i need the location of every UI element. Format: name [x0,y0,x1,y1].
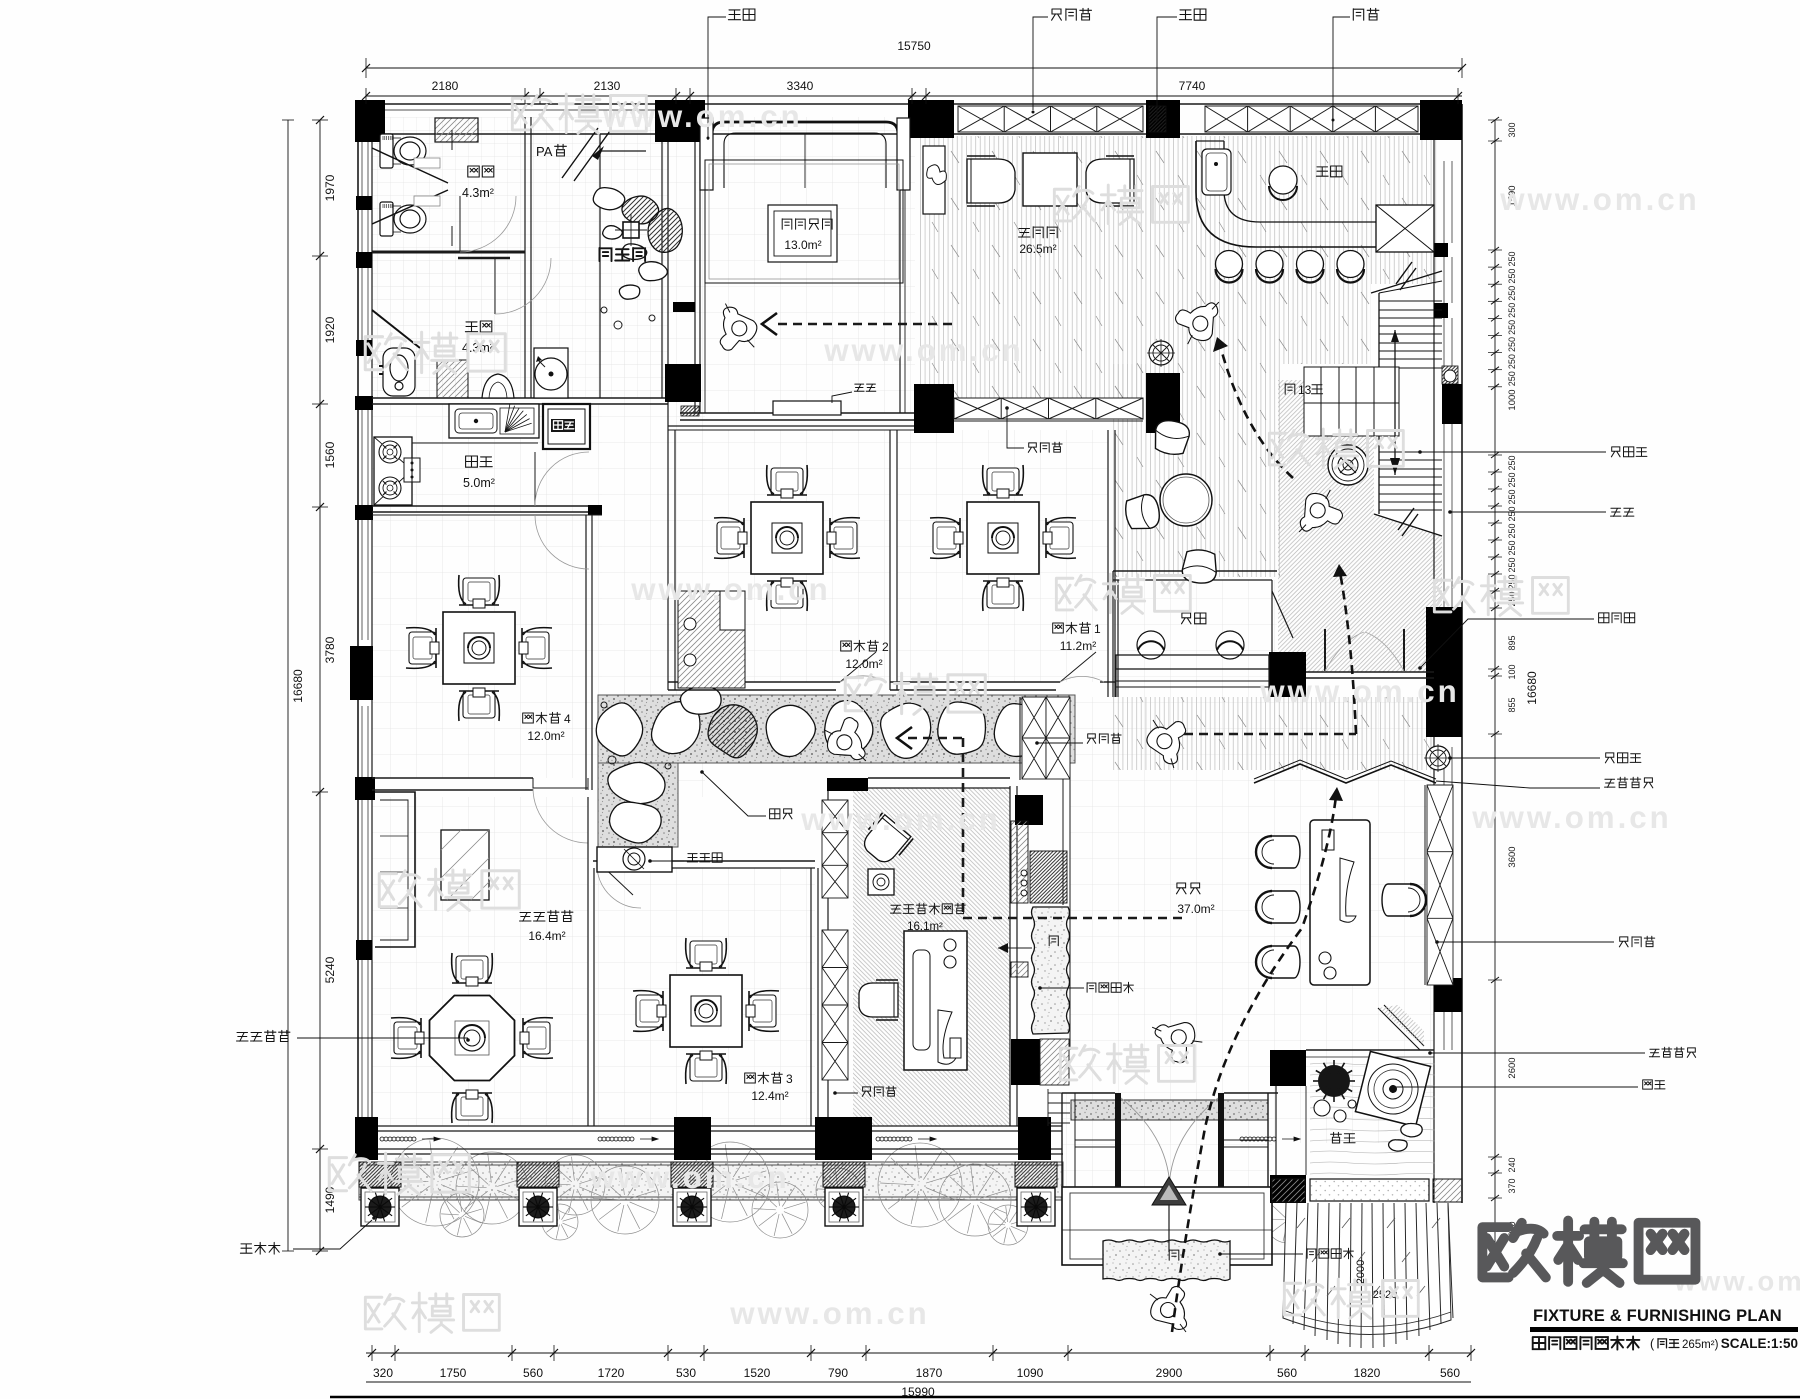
floor lamp at stair bottom [1328,445,1368,485]
leader bluestone steps 2 [1220,1253,1303,1255]
wine room rug [705,160,903,283]
lounge wood stripe floor [1113,364,1280,577]
svg-text:790: 790 [828,1366,848,1380]
water ripples [1310,1063,1435,1175]
wine room left wall black bits [673,302,695,312]
stair break marks [1396,262,1416,290]
wine room sofa [712,122,898,188]
leader lattice screen 1 [1436,781,1600,788]
porch frame [1062,1187,1272,1265]
svg-text:100: 100 [1507,664,1517,679]
lounge chairs + round table [1152,418,1191,456]
dry landscape boundary x705 [699,142,701,413]
black pier top x655 [655,100,705,142]
svg-text:250: 250 [1507,472,1517,487]
barstool behind counter [1269,166,1297,194]
person near reception [1140,713,1190,768]
ladies WC toilets [380,134,426,168]
black pier top-right corner [1420,100,1462,140]
hidden door wall y672-678 [1306,671,1434,673]
green belt band [359,1162,1063,1200]
kitchen stove [374,437,412,505]
entry terrazzo threshold [1071,1100,1268,1120]
gents round wash basin [534,348,568,398]
buddha basin rotated square [1355,1051,1430,1126]
mahjong3 door [597,861,633,895]
left wall window lines [361,142,363,196]
leader display cabinet tasting [1007,408,1024,448]
entry hall side frames [1075,1139,1117,1141]
top leader labels [708,17,726,140]
svg-text:www.om.cn: www.om.cn [630,572,831,607]
corridor wall x662-668 [661,142,663,398]
mahjong4 right wall x586-592 [585,515,587,790]
left overall 16680 [287,120,289,1251]
water court sill band [1310,1179,1429,1201]
front hall right display strip [1424,785,1426,985]
svg-text:2: 2 [882,640,889,654]
label display top [1028,442,1062,452]
label tea calligraphy room [891,903,966,914]
leader floor lamp upper [1420,451,1606,453]
mahjong table set room3 [670,975,742,1047]
mahjong table set room4 [443,612,515,684]
svg-text:12.0m²: 12.0m² [527,729,564,743]
tea room diagonal hatch floor [853,788,1010,1126]
svg-text:PA: PA [536,144,553,159]
person near bar [1174,302,1225,346]
svg-text:250: 250 [1507,523,1517,538]
tea room top wall [827,778,868,791]
label thirteen waters [520,910,573,921]
dashed route entry [1172,796,1336,1332]
mahjong3 right wall x811-818 [810,868,812,1126]
gents small sink [482,374,514,398]
svg-text:16.4m²: 16.4m² [528,929,565,943]
corridor wall x600 [599,134,601,398]
svg-text:www.om.cn: www.om.cn [1259,674,1460,709]
wine tasting area wood stripe floor [919,136,1146,399]
dashed route front hall horizontal [1184,733,1356,736]
toilet vertical wall x525 [524,117,526,398]
leader stepping stones [702,772,766,816]
label ladies WC [468,166,494,177]
svg-text:250: 250 [1507,557,1517,572]
outer wall right [1433,134,1435,1203]
mahjong room door leaves [840,652,876,682]
right wall window lines [1443,161,1445,243]
tea room long table [904,931,967,1070]
leader hidden door [1420,619,1594,668]
leader buddha [1393,1086,1638,1088]
planter boxes [359,1162,401,1187]
leader fireplace wineroom [832,392,852,403]
watermarks [512,94,646,133]
bluestone step slab [1103,1240,1230,1281]
front hall long table [1310,820,1370,985]
toilets bottom wall y398-404 [372,397,668,399]
svg-text:250: 250 [1507,540,1517,555]
svg-text:250: 250 [1507,337,1517,352]
wine room label box [768,205,837,262]
svg-text:26.5m²: 26.5m² [1019,242,1056,256]
svg-text:4: 4 [564,712,571,726]
plant box on wall [923,146,945,214]
corridor stripe floor above screen [1113,697,1434,770]
svg-text:1870: 1870 [916,1366,943,1380]
svg-text:560: 560 [1440,1366,1460,1380]
leader fireplace right [1450,511,1606,513]
label mahjong3 [745,1072,783,1083]
hidden door posts and arcs [1324,629,1326,671]
outer wall left [357,104,359,1158]
gents door arc [494,258,496,314]
person in entry hall [1152,1009,1206,1067]
svg-text:265m²): 265m²) [1682,1339,1719,1351]
black pier top-left corner [355,100,385,142]
display cabinet band top (X pattern) x958-1143 [958,106,1143,132]
label front hall [1177,883,1201,894]
svg-text:15750: 15750 [897,39,931,53]
svg-text:560: 560 [523,1366,543,1380]
label up porch [1169,1250,1179,1261]
floor lamp top right of front hall [1426,746,1450,770]
label dry landscape (bold) [600,248,646,261]
big gray logo bottom right [1482,1221,1695,1283]
ladies/gents divider wall y252-258 [372,251,525,254]
label water feature [1331,1132,1356,1143]
PA room slanted break symbol [562,128,610,181]
svg-text:2600: 2600 [1507,1057,1518,1078]
bottom dimension line [366,1352,1471,1354]
label up tea strip [1049,936,1058,946]
person center corridor [823,716,867,767]
stepping stones [596,703,642,756]
leader floor lamp 2 [1450,757,1600,759]
window spring symbols [380,1137,440,1141]
svg-text:1560: 1560 [323,441,337,468]
sloped glass door to water court [1378,1005,1424,1050]
svg-text:895: 895 [1507,635,1517,650]
svg-text:250: 250 [1507,303,1517,318]
svg-text:2900: 2900 [1156,1366,1183,1380]
svg-text:16.1m²: 16.1m² [907,921,943,933]
washstand hatched cabinet (ladies WC) [435,118,478,142]
gents hatched cabinet [437,360,468,398]
kitchen counter edge [412,442,538,444]
label display hall-left [1087,733,1121,743]
svg-text:www.om.cn: www.om.cn [729,1296,930,1331]
wine room hearth [773,401,841,415]
reception door leaf [1272,591,1293,638]
svg-text:3340: 3340 [787,79,814,93]
svg-text:16680: 16680 [291,669,305,703]
octagon table 13-waters [430,996,515,1081]
label wine room [782,219,832,230]
leader thirteen water table [297,1037,468,1039]
mahjong rooms left wall x668-675 [667,404,669,690]
porch step triangle marker [1152,1177,1186,1205]
entry left wall [1061,1093,1063,1187]
floor lamp near bar [1149,341,1173,365]
water court walls [1270,1050,1306,1086]
thirteen waters sofa [375,792,415,947]
leader display right [1437,941,1614,943]
mahjong rooms bottom wall y682-690 [668,681,840,683]
black pier top x1146 [1146,100,1180,138]
end-view stand alcove [597,847,672,872]
mahjong table set room2 [751,502,823,574]
tea room left display strip [827,786,829,1126]
label mahjong2 [841,640,879,651]
reception desk and chairs [1137,631,1165,659]
svg-text:1720: 1720 [598,1366,625,1380]
bluestone slab vertical [1032,907,1070,1034]
svg-text:530: 530 [676,1366,696,1380]
svg-text:SCALE:1:50: SCALE:1:50 [1721,1336,1798,1351]
hatch floor below lower stair [1374,514,1442,672]
hatch floor near hidden door [1278,380,1374,672]
svg-text:560: 560 [1277,1366,1297,1380]
left margin labels [237,1030,290,1041]
dashed route wine room [778,323,956,326]
right dimension column [1494,120,1496,1260]
svg-text:1000: 1000 [1507,389,1518,410]
left wall piers [356,196,372,210]
svg-text:12.0m²: 12.0m² [845,657,882,671]
right wall piers [1434,243,1448,257]
svg-text:1520: 1520 [744,1366,771,1380]
kitchen/mahjong4 door arc 2 [535,514,589,516]
label display tearoom [862,1086,896,1096]
strip contents: black blocks, hatch, bluestone slab [1015,795,1043,825]
label end stand [687,853,722,862]
svg-text:5.0m²: 5.0m² [463,476,495,490]
label tasting area [1019,227,1058,238]
stripe floor diagonal ticks overlay [919,136,1146,399]
svg-text:3: 3 [786,1072,793,1086]
label mahjong4 [523,712,561,723]
svg-text:16680: 16680 [1525,671,1539,705]
tea room stove [868,869,894,895]
tea room rotated armchair [857,813,913,869]
dashed route center corridor [908,737,963,740]
room floor grids [372,117,525,398]
stairs upper right [1304,271,1442,536]
bar counter [1196,141,1376,247]
svg-text:2180: 2180 [432,79,459,93]
svg-text:855: 855 [1507,697,1517,712]
black pier right of reception [1269,652,1306,697]
svg-text:www.om.cn: www.om.cn [602,99,803,134]
svg-text:250: 250 [1507,320,1517,335]
wine room bottom wall / fireplace [680,412,930,414]
hatched corner unit in mahjong2 [678,591,745,688]
svg-text:13: 13 [1298,383,1312,397]
label stepping stones [770,809,792,819]
svg-text:www.om.cn: www.om.cn [1499,182,1700,217]
entry door swing arcs [1121,1098,1170,1192]
dashed route bar curve [1220,345,1293,478]
top dimension line 15750 [366,67,1462,69]
person in wine room [717,303,761,354]
front hall chairs [1256,836,1300,868]
svg-text:3780: 3780 [323,636,337,663]
subtitle [1533,1336,1640,1349]
top dimension line segments [366,95,1462,97]
label kitchen [466,456,493,467]
kitchen bottom wall y505-512 [372,505,602,507]
svg-text:1: 1 [1094,622,1101,636]
label fireplace wineroom [854,384,875,391]
wine room left wall x695-700 [694,142,696,413]
svg-text:1920: 1920 [323,316,337,343]
svg-text:4.3m²: 4.3m² [462,186,494,200]
svg-text:320: 320 [373,1366,393,1380]
bottom wall piers [355,1117,378,1160]
person at stairs [1293,489,1344,533]
bar area wood stripe floor [1146,136,1438,284]
svg-text:37.0m²: 37.0m² [1177,902,1214,916]
left dimension column [319,120,321,1251]
dry landscape rocks [593,188,625,210]
right corridor strip walls x1010-1070 [1009,786,1011,1126]
gents WC squat toilet [379,348,415,396]
wine room right wall x900-905 [899,142,901,413]
bluestone labels [1087,982,1133,992]
svg-text:5240: 5240 [323,956,337,983]
svg-text:www.om.cn: www.om.cn [800,802,1001,837]
reception room walls [1113,570,1277,572]
svg-text:250: 250 [1507,269,1517,284]
WC stall partitions [372,148,448,224]
svg-text:1820: 1820 [1354,1366,1381,1380]
mahjong 1/2 top wall y426-430 [668,425,914,427]
garden trees [391,1138,479,1226]
screen zigzag partition [1254,764,1436,783]
svg-text:www.om.cn: www.om.cn [1471,800,1672,835]
stepping stone gravel band horizontal [598,695,1075,763]
svg-text:13.0m²: 13.0m² [784,238,821,252]
label reception [1182,613,1206,624]
mahjong4/kitchen top wall y515 [372,514,602,516]
svg-text:250: 250 [1507,251,1517,266]
fan shaped stone steps bottom right [1283,1203,1453,1348]
svg-text:12.4m²: 12.4m² [751,1089,788,1103]
bar right X box [1376,205,1434,252]
leader end stand [650,860,684,862]
leader green belt [293,1220,372,1249]
mahjong mid wall x890-897 [889,430,891,690]
mahjong4 bottom wall y778-790 [372,777,533,779]
svg-text:3600: 3600 [1507,846,1518,867]
thirteen waters room: right wall x588 [587,797,589,1126]
leader display cabinet tearoom [835,1092,858,1094]
svg-text:370: 370 [1507,1178,1517,1193]
display strip upper X columns [1022,697,1046,779]
kitchen sink unit [449,404,539,438]
black pier x1146 y373 [1146,373,1180,433]
mahjong3 top wall y861-868 [593,860,815,862]
svg-text:250: 250 [1507,455,1517,470]
bottom outer wall band [372,1125,1062,1127]
outer wall top double line [358,103,1462,105]
gents partition wall [372,310,420,348]
svg-text:250: 250 [1507,354,1517,369]
svg-text:1750: 1750 [440,1366,467,1380]
svg-text:250: 250 [1507,489,1517,504]
tasting area bottom wall with X display band [914,384,954,433]
stepping stone gravel band vertical [598,763,678,847]
svg-text:2130: 2130 [594,79,621,93]
svg-text:1090: 1090 [1017,1366,1044,1380]
wine cabinet band top x1205-1418 [1205,106,1418,132]
svg-text:300: 300 [1507,122,1517,137]
right margin labels [1611,447,1647,457]
stair direction arrows [1394,330,1396,475]
label bar inner [1316,166,1342,177]
ladies WC door arc [459,196,461,252]
kitchen door arc [534,452,536,506]
leader bluestone steps 1 [1040,987,1084,989]
glass side table [441,830,489,900]
water court bonsai tree [1313,1060,1355,1102]
mahjong table set room1 [967,502,1039,574]
person at porch [1150,1286,1187,1332]
big black pier right mid (fireplace) [1426,607,1462,737]
bar stools row [1216,251,1243,278]
svg-text:www.om.cn: www.om.cn [823,333,1024,368]
label mahjong1 [1053,622,1091,633]
fridge [543,404,590,449]
up arrow at porch [1168,1205,1170,1252]
svg-text:250: 250 [1507,286,1517,301]
entry double door posts [1115,1093,1121,1190]
left arrow into tea strip [998,947,1032,949]
label gents WC [465,321,491,332]
svg-text:7740: 7740 [1179,79,1206,93]
svg-text:250: 250 [1507,371,1517,386]
leader lattice screen 2 [1430,1052,1645,1054]
black pier top x908 [908,100,954,138]
tasting area furniture: two armchairs + table [967,156,1015,206]
mahjong right wall x1108-1115 [1107,430,1109,697]
svg-text:250: 250 [1507,506,1517,521]
leader display cabinet hall-left [1037,742,1083,744]
svg-text:240: 240 [1507,1157,1517,1172]
svg-text:FIXTURE & FURNISHING PLAN: FIXTURE & FURNISHING PLAN [1533,1307,1782,1325]
svg-text:11.2m²: 11.2m² [1060,639,1096,653]
svg-text:www.om.cn: www.om.cn [589,1160,790,1195]
label up 13 steps [1285,384,1295,395]
bar sink [1202,149,1231,195]
svg-text:1970: 1970 [323,174,337,201]
